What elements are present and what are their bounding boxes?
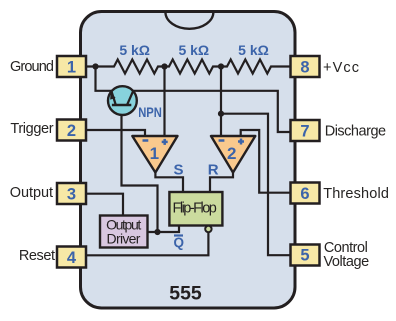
svg-text:Reset: Reset [19,248,55,264]
svg-text:Flip-Flop: Flip-Flop [173,201,217,217]
svg-text:Voltage: Voltage [324,254,370,270]
svg-text:Ground: Ground [10,59,54,75]
svg-text:6: 6 [300,185,309,203]
svg-text:2: 2 [67,122,76,140]
svg-text:555: 555 [169,284,202,305]
svg-text:1: 1 [150,144,159,163]
svg-text:5 kΩ: 5 kΩ [119,42,150,58]
svg-text:R: R [208,161,219,178]
svg-text:7: 7 [300,123,309,141]
svg-text:3: 3 [67,186,76,204]
svg-text:Discharge: Discharge [325,124,386,140]
svg-text:4: 4 [67,249,77,267]
svg-text:5: 5 [300,247,309,265]
svg-text:S: S [173,161,183,178]
svg-text:NPN: NPN [138,104,162,120]
svg-text:Q: Q [174,235,185,250]
svg-text:Threshold: Threshold [323,186,389,202]
svg-text:5 kΩ: 5 kΩ [238,42,269,58]
svg-text:1: 1 [67,59,76,77]
svg-text:Driver: Driver [107,231,141,247]
svg-text:5 kΩ: 5 kΩ [178,42,209,58]
svg-text:Output: Output [10,185,53,201]
svg-text:2: 2 [227,144,236,163]
svg-text:Trigger: Trigger [10,121,53,137]
svg-text:+Vcc: +Vcc [323,60,359,76]
svg-text:8: 8 [300,59,309,77]
